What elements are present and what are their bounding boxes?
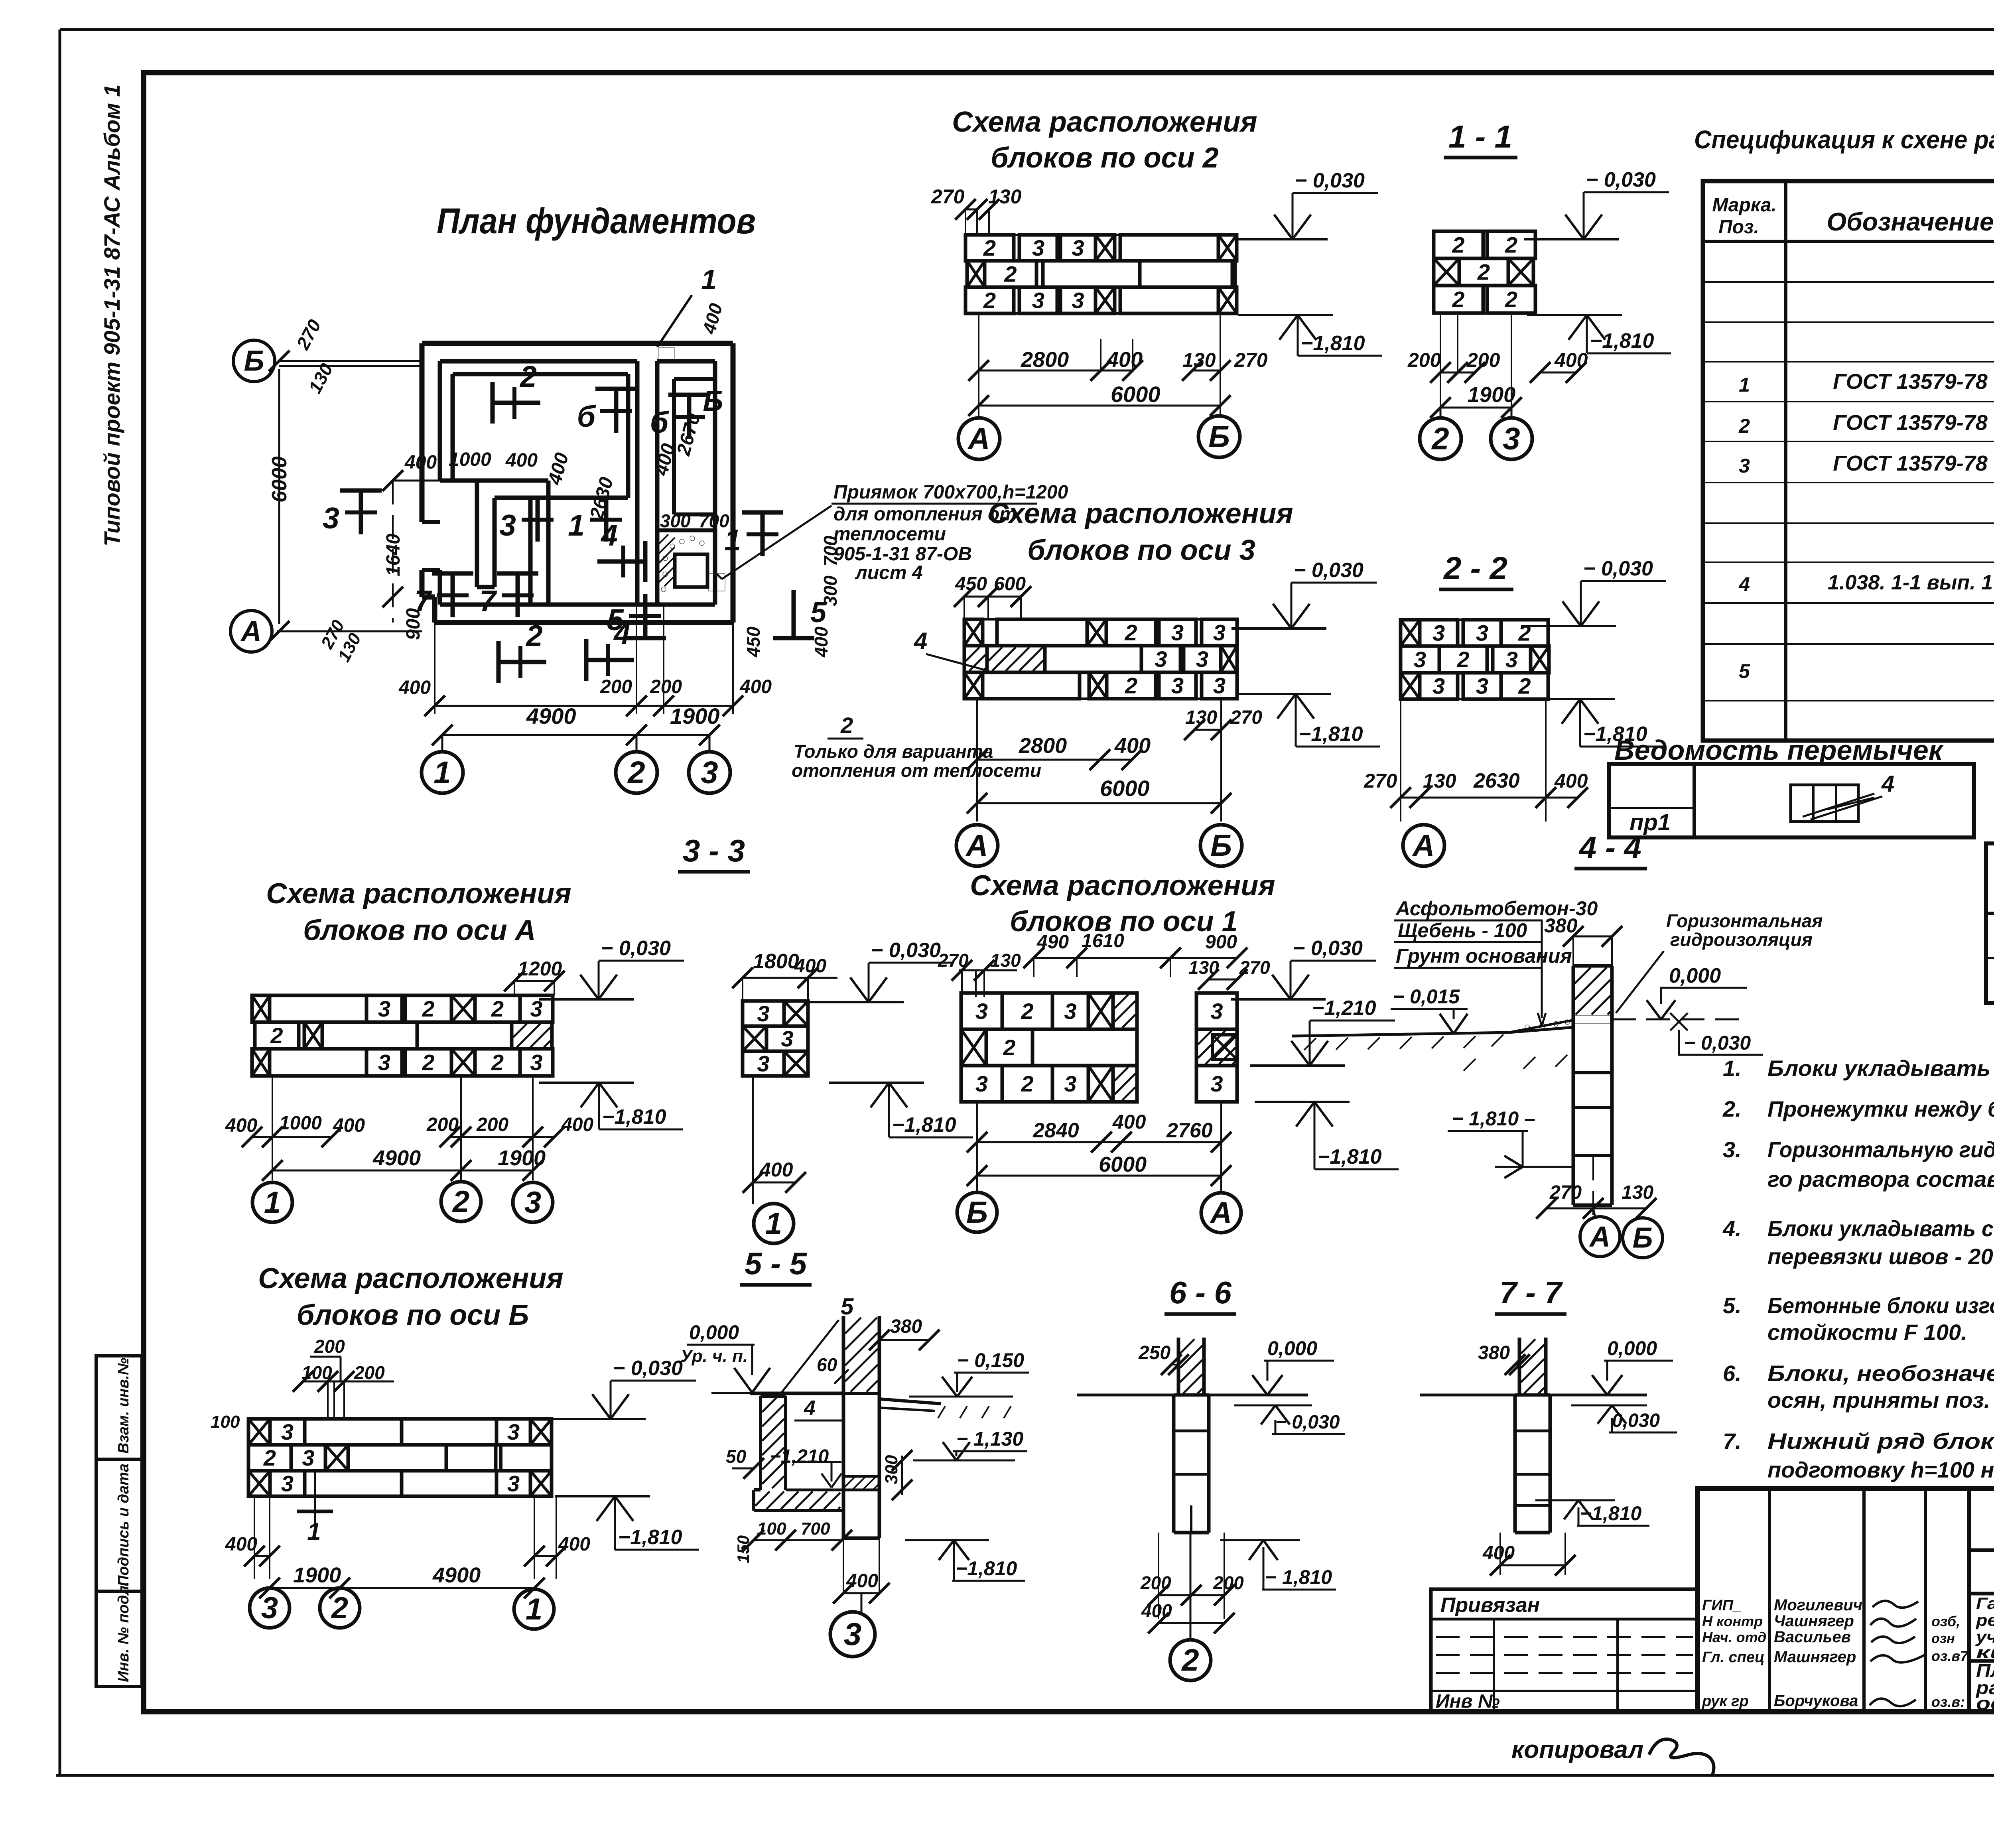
svg-text:Б: Б <box>1633 1222 1653 1254</box>
scheme axis1 right column <box>1196 993 1237 1029</box>
svg-text:Схема расположения: Схема расположения <box>952 106 1257 138</box>
svg-text:4: 4 <box>914 628 927 654</box>
svg-text:400: 400 <box>1482 1543 1515 1564</box>
svg-text:270: 270 <box>931 185 965 208</box>
svg-text:600: 600 <box>994 573 1026 595</box>
svg-text:2760: 2760 <box>1166 1119 1213 1142</box>
svg-text:1000: 1000 <box>449 449 491 470</box>
svg-text:2840: 2840 <box>1032 1119 1079 1142</box>
svg-text:4.: 4. <box>1722 1216 1742 1241</box>
svg-text:Пронежутки нежду блокани за: Пронежутки нежду блокани заделать бетоно… <box>1767 1096 1994 1121</box>
svg-text:− 0,030: − 0,030 <box>1275 1412 1340 1433</box>
svg-text:Поз.: Поз. <box>1718 217 1759 238</box>
svg-text:900: 900 <box>1205 932 1237 953</box>
svg-text:400: 400 <box>1554 770 1588 792</box>
plan pit dark insert <box>708 573 725 591</box>
foundation plan inner wall lines <box>440 359 637 364</box>
svg-text:3: 3 <box>1213 620 1226 645</box>
svg-text:400: 400 <box>225 1115 257 1136</box>
svg-text:1: 1 <box>433 755 451 790</box>
svg-text:3: 3 <box>1503 421 1520 456</box>
svg-text:3: 3 <box>499 508 516 542</box>
svg-text:−1,810: −1,810 <box>1301 332 1365 355</box>
svg-text:7 - 7: 7 - 7 <box>1499 1275 1563 1310</box>
svg-text:700: 700 <box>699 510 729 531</box>
section 5-5 axis circle <box>861 1593 863 1614</box>
svg-text:3: 3 <box>1171 620 1184 645</box>
svg-text:3: 3 <box>261 1591 278 1625</box>
svg-text:3: 3 <box>1171 673 1184 698</box>
svg-text:− 1,810 –: − 1,810 – <box>1452 1107 1535 1130</box>
svg-text:2 - 2: 2 - 2 <box>1443 550 1507 586</box>
svg-text:−1,810: −1,810 <box>1299 723 1363 746</box>
svg-text:60: 60 <box>817 1354 837 1375</box>
section 5-5 cap <box>750 1392 843 1395</box>
section 4-4 ground <box>1292 1032 1509 1036</box>
svg-text:380: 380 <box>1478 1342 1510 1363</box>
svg-text:6000: 6000 <box>1100 776 1150 801</box>
foundation plan outer walls <box>422 341 733 346</box>
svg-text:Типовой проект 905-1-31 87-А: Типовой проект 905-1-31 87-АС Альбом 1 <box>99 85 124 546</box>
svg-text:2: 2 <box>331 1591 348 1625</box>
svg-text:План фундаментов: План фундаментов <box>437 201 756 241</box>
plan left axis circles <box>233 340 275 382</box>
svg-text:270: 270 <box>1363 770 1397 792</box>
svg-text:3: 3 <box>524 1186 541 1220</box>
svg-text:2: 2 <box>1431 421 1449 456</box>
svg-text:3: 3 <box>507 1419 520 1444</box>
svg-text:Щебень - 100: Щебень - 100 <box>1398 919 1527 942</box>
svg-text:регуляторон РДБК-50 с: регуляторон РДБК-50 с <box>1976 1611 1994 1629</box>
svg-text:3: 3 <box>1064 1071 1076 1096</box>
svg-text:озб,: озб, <box>1931 1613 1960 1629</box>
svg-text:Васильев: Васильев <box>1774 1628 1851 1646</box>
svg-text:200: 200 <box>1407 349 1441 371</box>
title block frame <box>1698 1489 1994 1712</box>
svg-text:1: 1 <box>307 1518 321 1546</box>
plan interior vertical wall 2 <box>528 498 533 605</box>
svg-text:2: 2 <box>270 1023 283 1048</box>
plan right pit room <box>657 528 715 532</box>
svg-text:рук гр: рук гр <box>1702 1693 1749 1710</box>
svg-text:блоков по оси А: блоков по оси А <box>303 914 536 946</box>
svg-text:400: 400 <box>505 450 538 471</box>
svg-text:4 - 4: 4 - 4 <box>1578 830 1641 865</box>
svg-text:2: 2 <box>422 996 434 1021</box>
svg-text:Обозначение: Обозначение <box>1827 207 1994 236</box>
section 4-4 gravel wedge <box>1509 1020 1573 1032</box>
svg-text:Б: Б <box>244 345 264 377</box>
svg-text:3: 3 <box>281 1419 294 1444</box>
svg-text:5.: 5. <box>1723 1293 1742 1318</box>
svg-text:3: 3 <box>1072 288 1084 313</box>
svg-text:Машнягер: Машнягер <box>1774 1648 1856 1666</box>
svg-text:3: 3 <box>281 1471 294 1496</box>
svg-text:400: 400 <box>794 956 826 977</box>
svg-text:Н контр: Н контр <box>1702 1613 1763 1629</box>
section 4-4 axis circles <box>1593 1208 1595 1217</box>
scheme axis2 axis circles <box>958 418 1000 459</box>
svg-text:оз.в:: оз.в: <box>1931 1694 1965 1710</box>
plan wall under room <box>453 479 548 483</box>
svg-text:400: 400 <box>225 1534 257 1555</box>
svg-text:4: 4 <box>600 518 618 552</box>
svg-text:−1,210: −1,210 <box>1312 997 1376 1020</box>
svg-text:3: 3 <box>302 1445 314 1470</box>
svg-text:−1,810: −1,810 <box>618 1526 682 1549</box>
svg-text:2: 2 <box>1003 1035 1015 1060</box>
svg-text:3: 3 <box>1505 647 1518 672</box>
plan pit <box>675 554 707 587</box>
svg-text:Подпись и дата: Подпись и дата <box>115 1464 132 1586</box>
svg-text:2: 2 <box>1125 673 1137 698</box>
svg-text:130: 130 <box>1182 349 1216 371</box>
svg-text:5: 5 <box>841 1294 854 1320</box>
scheme axisA blocks <box>252 995 270 1022</box>
svg-text:2: 2 <box>491 1050 504 1075</box>
svg-text:стойкости F 100.: стойкости F 100. <box>1767 1320 1967 1345</box>
svg-text:3: 3 <box>530 1050 542 1075</box>
svg-text:4900: 4900 <box>526 703 576 729</box>
svg-text:Марка.: Марка. <box>1712 195 1777 216</box>
svg-text:− 0,030: − 0,030 <box>1586 168 1656 191</box>
svg-text:3: 3 <box>975 1071 988 1096</box>
svg-text:3: 3 <box>1196 646 1208 672</box>
section 2-2 axis circle <box>1403 825 1444 866</box>
scheme axis3 axis circles <box>956 825 998 866</box>
svg-text:6 - 6: 6 - 6 <box>1169 1275 1232 1310</box>
svg-text:кирпичные): кирпичные) <box>1976 1643 1994 1662</box>
svg-text:270: 270 <box>292 316 325 353</box>
svg-text:Инв. № подл.: Инв. № подл. <box>115 1581 132 1682</box>
svg-text:100: 100 <box>211 1412 240 1432</box>
svg-text:5: 5 <box>1739 660 1750 682</box>
section 6-6 ground line <box>1077 1394 1178 1397</box>
svg-text:200: 200 <box>354 1362 385 1383</box>
plan section mark 3 left <box>359 491 363 534</box>
svg-text:Чашнягер: Чашнягер <box>1774 1612 1854 1630</box>
svg-text:− 0,030: − 0,030 <box>1295 169 1365 192</box>
svg-text:250: 250 <box>1138 1342 1170 1363</box>
svg-text:перевязки швов - 200 нн: перевязки швов - 200 нн <box>1767 1244 1994 1269</box>
svg-text:905-1-31 87-ОВ: 905-1-31 87-ОВ <box>833 544 972 565</box>
svg-text:3: 3 <box>378 1050 390 1075</box>
svg-text:−1,810: −1,810 <box>1318 1145 1382 1168</box>
svg-text:6.: 6. <box>1723 1361 1742 1386</box>
svg-text:1: 1 <box>1739 374 1750 396</box>
svg-text:подготовку h=100 нн: подготовку h=100 нн <box>1767 1457 1994 1482</box>
svg-text:Бетонные блоки изготовить и: Бетонные блоки изготовить из бетона нарк… <box>1767 1293 1994 1318</box>
svg-text:Горизонтальная: Горизонтальная <box>1666 910 1823 931</box>
svg-text:озн: озн <box>1931 1631 1955 1646</box>
svg-text:Блоки укладывать на ценентн: Блоки укладывать на ценентнон растворе н… <box>1767 1056 1994 1081</box>
svg-text:200: 200 <box>650 676 682 697</box>
svg-text:6000: 6000 <box>1111 382 1161 407</box>
svg-text:1200: 1200 <box>518 957 562 980</box>
svg-text:400: 400 <box>1106 348 1143 372</box>
svg-text:отопления от теплосети: отопления от теплосети <box>792 760 1041 781</box>
svg-text:1: 1 <box>526 1592 542 1626</box>
svg-text:400: 400 <box>561 1114 593 1135</box>
svg-text:400: 400 <box>759 1158 793 1181</box>
svg-text:Газорегуляторный пункт с: Газорегуляторный пункт с <box>1976 1594 1994 1613</box>
svg-text:3: 3 <box>378 996 390 1021</box>
svg-text:Горизонтальную гидроизоляцию: Горизонтальную гидроизоляцию выполнять и… <box>1767 1137 1994 1162</box>
svg-text:380: 380 <box>1544 914 1578 937</box>
svg-text:осян Сечения.: осян Сечения. <box>1976 1693 1994 1714</box>
svg-text:− 0,030: − 0,030 <box>1293 937 1363 960</box>
svg-text:3: 3 <box>1213 673 1226 698</box>
svg-text:4: 4 <box>1881 771 1894 797</box>
svg-text:1610: 1610 <box>1082 930 1124 952</box>
svg-text:3: 3 <box>1414 647 1426 672</box>
svg-text:блоков по оси 3: блоков по оси 3 <box>1027 534 1255 566</box>
svg-text:А: А <box>1412 829 1435 863</box>
svg-text:2: 2 <box>525 619 543 652</box>
title block signatures <box>1872 1601 1918 1608</box>
svg-text:400: 400 <box>1114 734 1151 758</box>
svg-text:Блоки укладывать с перевязко: Блоки укладывать с перевязкой вертикальн… <box>1767 1216 1994 1241</box>
svg-text:2630: 2630 <box>1473 769 1520 792</box>
privyazan table <box>1431 1589 1698 1712</box>
svg-text:2: 2 <box>983 288 996 313</box>
svg-text:130: 130 <box>1622 1182 1653 1203</box>
svg-text:− 0,030: − 0,030 <box>1684 1032 1751 1054</box>
svg-text:гидроизоляция: гидроизоляция <box>1670 929 1813 950</box>
section 2-2 blocks <box>1401 620 1420 646</box>
svg-text:3: 3 <box>1155 646 1167 672</box>
svg-text:ГОСТ 13579-78: ГОСТ 13579-78 <box>1833 451 1988 475</box>
svg-text:400: 400 <box>404 452 437 473</box>
svg-text:3: 3 <box>844 1616 862 1652</box>
svg-text:−1,210: −1,210 <box>770 1446 829 1467</box>
plan axis2 wall <box>635 361 640 605</box>
svg-text:Инв №: Инв № <box>1436 1691 1500 1712</box>
svg-text:3: 3 <box>1072 235 1084 260</box>
svg-text:Б: Б <box>1208 420 1230 454</box>
svg-text:− 0,030: − 0,030 <box>601 937 671 960</box>
svg-text:Взам. инв.№: Взам. инв.№ <box>115 1358 132 1454</box>
svg-text:Нижний ряд блоков укладыв: Нижний ряд блоков укладывать на песчаную <box>1767 1428 1994 1454</box>
svg-text:А: А <box>1210 1196 1232 1230</box>
svg-text:Только для варианта: Только для варианта <box>794 741 993 762</box>
plan door gap stubs <box>422 520 440 524</box>
svg-text:3: 3 <box>1432 674 1445 699</box>
scheme axis1 axis circles <box>957 1192 997 1232</box>
svg-text:Борчукова: Борчукова <box>1774 1692 1858 1710</box>
svg-text:2: 2 <box>1505 287 1517 312</box>
svg-text:1.038. 1-1 вып. 1: 1.038. 1-1 вып. 1 <box>1828 571 1993 594</box>
scheme axis2 blocks <box>965 235 1014 261</box>
svg-text:ГОСТ 13579-78: ГОСТ 13579-78 <box>1833 411 1988 435</box>
plan section marks <box>493 401 540 405</box>
section 6-6 axis circle <box>1190 1533 1192 1640</box>
svg-text:2.: 2. <box>1722 1096 1742 1121</box>
svg-text:Спецификация к схене располиже: Спецификация к схене располижения эленен… <box>1694 125 1994 154</box>
scheme axis1 blocks <box>961 993 1002 1029</box>
svg-text:Привязан: Привязан <box>1440 1594 1540 1617</box>
svg-text:1: 1 <box>264 1186 281 1220</box>
svg-text:1000: 1000 <box>279 1113 322 1134</box>
plan interior vertical wall 1 <box>493 498 497 587</box>
section 6-6 wall <box>1177 1338 1180 1395</box>
svg-text:200: 200 <box>1140 1572 1171 1593</box>
explikatsiya table <box>1986 843 1994 1003</box>
spec table grid <box>1703 181 1994 741</box>
svg-text:− 0,015: − 0,015 <box>1393 985 1460 1008</box>
scheme axisB section mark 1 <box>314 1471 316 1525</box>
svg-text:2: 2 <box>1477 260 1490 285</box>
svg-text:4900: 4900 <box>372 1146 421 1170</box>
svg-text:700: 700 <box>801 1519 830 1539</box>
svg-text:3: 3 <box>975 999 988 1024</box>
svg-text:300: 300 <box>820 575 841 606</box>
plan right top room <box>674 377 715 381</box>
svg-text:Схема расположения: Схема расположения <box>258 1263 563 1294</box>
svg-text:2: 2 <box>627 755 645 790</box>
svg-text:2: 2 <box>1452 287 1464 312</box>
svg-text:1: 1 <box>568 508 585 542</box>
svg-text:блоков по оси Б: блоков по оси Б <box>297 1299 529 1331</box>
svg-text:− 0,030: − 0,030 <box>871 939 941 962</box>
svg-text:400: 400 <box>558 1534 590 1555</box>
svg-text:1900: 1900 <box>1468 383 1515 407</box>
svg-text:А: А <box>967 422 990 456</box>
scheme axis3 blocks <box>964 619 983 646</box>
svg-text:2: 2 <box>1456 647 1469 672</box>
svg-text:3: 3 <box>507 1471 520 1496</box>
plan leader to pos1 <box>657 295 692 347</box>
svg-text:900: 900 <box>403 608 424 640</box>
svg-text:2: 2 <box>1021 999 1033 1024</box>
svg-text:400: 400 <box>811 627 831 658</box>
svg-text:б: б <box>650 406 670 439</box>
svg-text:2: 2 <box>983 235 996 260</box>
svg-text:3: 3 <box>1032 288 1044 313</box>
svg-text:го раствора состава 1:3 тол: го раствора состава 1:3 толщиной 30 на о… <box>1767 1166 1994 1192</box>
svg-text:0,000: 0,000 <box>1607 1337 1657 1359</box>
svg-text:200: 200 <box>1466 349 1500 371</box>
svg-text:270: 270 <box>1230 707 1262 728</box>
section 5-5 retaining wall <box>761 1395 786 1398</box>
svg-text:1900: 1900 <box>293 1563 341 1587</box>
svg-text:450: 450 <box>743 627 764 658</box>
svg-text:300: 300 <box>660 510 691 531</box>
svg-text:400: 400 <box>1141 1600 1172 1621</box>
svg-text:Б: Б <box>703 385 723 417</box>
section 7-7 ground line <box>1420 1394 1519 1397</box>
svg-text:теплосети: теплосети <box>833 524 946 545</box>
svg-text:Б: Б <box>1210 829 1232 863</box>
section 5-5 wall <box>842 1316 845 1538</box>
svg-text:осян, приняты поз. 1: осян, приняты поз. 1 <box>1767 1387 1994 1413</box>
section 3-3 blocks <box>743 1001 784 1026</box>
scheme axisB axis circles <box>250 1588 290 1628</box>
svg-text:400: 400 <box>846 1570 878 1592</box>
svg-text:3: 3 <box>323 501 339 535</box>
svg-text:Грунт основания: Грунт основания <box>1396 945 1572 967</box>
svg-text:4: 4 <box>804 1397 816 1420</box>
svg-text:1800: 1800 <box>753 950 799 973</box>
svg-text:3: 3 <box>1210 999 1223 1024</box>
vedomost sketch <box>1791 785 1858 822</box>
svg-text:2: 2 <box>840 713 853 738</box>
page outer border <box>60 28 1994 31</box>
svg-text:4: 4 <box>1738 573 1750 595</box>
svg-text:Б: Б <box>966 1196 988 1229</box>
svg-text:0,000: 0,000 <box>1669 964 1721 987</box>
scheme axisA axis circles <box>252 1182 292 1222</box>
svg-text:400: 400 <box>1112 1111 1146 1133</box>
svg-text:0,000: 0,000 <box>689 1321 739 1344</box>
svg-text:2: 2 <box>519 360 537 393</box>
svg-text:5: 5 <box>607 603 624 636</box>
svg-text:А: А <box>240 615 262 647</box>
svg-text:1 - 1: 1 - 1 <box>1448 119 1512 154</box>
svg-text:3: 3 <box>1739 455 1750 477</box>
svg-text:100: 100 <box>757 1519 786 1539</box>
svg-text:− 0,030: − 0,030 <box>1294 559 1363 582</box>
svg-text:ГИП_: ГИП_ <box>1702 1597 1742 1614</box>
svg-text:3: 3 <box>1476 674 1488 699</box>
section 3-3 axis circle <box>754 1204 794 1243</box>
svg-text:50: 50 <box>726 1446 747 1467</box>
svg-text:2800: 2800 <box>1021 348 1069 372</box>
svg-text:− 0,030: − 0,030 <box>613 1357 683 1380</box>
svg-text:200: 200 <box>476 1114 508 1135</box>
svg-text:А: А <box>965 829 988 863</box>
svg-text:2: 2 <box>1505 232 1517 258</box>
svg-text:2: 2 <box>1181 1643 1199 1678</box>
svg-text:3: 3 <box>1032 235 1044 260</box>
svg-text:копировал: копировал <box>1511 1736 1643 1763</box>
svg-text:Ур. ч. п.: Ур. ч. п. <box>680 1346 748 1366</box>
svg-text:Схема расположения: Схема расположения <box>266 878 571 910</box>
svg-text:1: 1 <box>701 264 717 295</box>
svg-text:3.: 3. <box>1723 1137 1742 1162</box>
svg-text:2: 2 <box>452 1185 469 1219</box>
svg-text:− 1,810: − 1,810 <box>1265 1566 1332 1588</box>
svg-text:2: 2 <box>491 996 504 1021</box>
svg-text:−1,810: −1,810 <box>892 1113 956 1137</box>
svg-text:200: 200 <box>314 1336 345 1357</box>
svg-text:2: 2 <box>1021 1071 1033 1096</box>
svg-text:7.: 7. <box>1723 1428 1742 1454</box>
section 1-1 axis circles <box>1440 408 1442 418</box>
svg-text:−1,810: −1,810 <box>602 1105 666 1129</box>
svg-text:2: 2 <box>1518 621 1531 646</box>
svg-text:Могилевич: Могилевич <box>1774 1596 1862 1614</box>
svg-text:2800: 2800 <box>1019 734 1067 758</box>
svg-text:3: 3 <box>757 1001 769 1026</box>
svg-text:2: 2 <box>1124 620 1137 645</box>
svg-text:А: А <box>1589 1221 1610 1253</box>
svg-text:400: 400 <box>698 301 726 337</box>
svg-text:3: 3 <box>1064 999 1076 1024</box>
svg-text:2: 2 <box>1452 232 1464 258</box>
svg-text:3: 3 <box>757 1051 769 1076</box>
plan top-left room <box>453 372 628 376</box>
svg-text:2: 2 <box>263 1445 276 1470</box>
svg-text:380: 380 <box>890 1316 922 1337</box>
section 7-7 wall <box>1518 1338 1521 1395</box>
sidebar stamp boxes <box>96 1356 142 1686</box>
svg-text:2: 2 <box>1004 262 1017 287</box>
svg-text:4900: 4900 <box>432 1563 481 1587</box>
svg-text:2: 2 <box>422 1050 434 1075</box>
svg-text:0,000: 0,000 <box>1267 1337 1317 1359</box>
svg-text:3: 3 <box>781 1026 793 1051</box>
